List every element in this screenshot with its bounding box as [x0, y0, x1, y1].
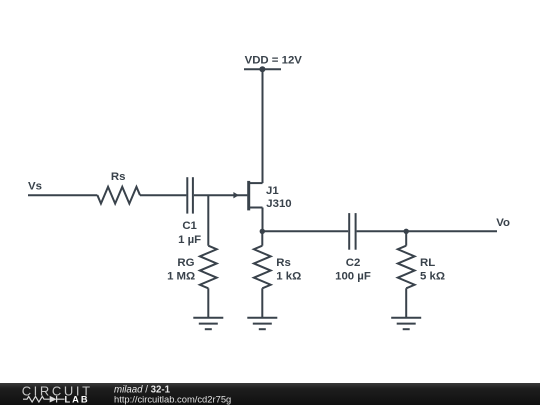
- logo diode triangle: [50, 396, 57, 403]
- junction dot VDD: [259, 66, 265, 72]
- svg-text:RG: RG: [177, 257, 194, 269]
- svg-text:J310: J310: [266, 198, 291, 210]
- ground for RG: [193, 318, 223, 330]
- svg-text:1 kΩ: 1 kΩ: [276, 270, 301, 282]
- wire input from Vs: [28, 194, 97, 196]
- svg-text:Vo: Vo: [496, 217, 510, 229]
- wire Rs 1k to ground: [261, 288, 263, 317]
- ground for Rs 1k: [247, 318, 277, 330]
- wire RG to ground: [207, 288, 209, 317]
- capacitor C1: [186, 177, 188, 213]
- wire RL to ground: [405, 288, 407, 317]
- wire VDD rail to drain: [262, 69, 264, 183]
- resistor RL: [398, 246, 415, 289]
- logo schematic squiggle: resistor: [23, 396, 65, 403]
- transistor J1 drain lead: [249, 182, 263, 184]
- resistor Rs (1 k): [254, 246, 271, 289]
- transistor J1 channel bar: [247, 181, 250, 211]
- wire C1 to gate: [194, 194, 248, 196]
- wire node down to Rs 1k: [261, 231, 263, 245]
- wire node down to RL: [405, 231, 407, 245]
- ground for RL: [391, 318, 421, 330]
- svg-text:RL: RL: [420, 257, 435, 269]
- transistor J1 source lead: [249, 207, 263, 209]
- svg-text:100 µF: 100 µF: [335, 270, 371, 282]
- svg-text:1 µF: 1 µF: [178, 234, 201, 246]
- resistor RG: [200, 246, 217, 289]
- svg-text:Rs: Rs: [111, 171, 126, 183]
- svg-text:C2: C2: [346, 257, 361, 269]
- wire resistor to C1: [140, 194, 186, 196]
- svg-text:LAB: LAB: [65, 394, 90, 404]
- wire source to node: [262, 208, 264, 232]
- svg-text:VDD = 12V: VDD = 12V: [245, 55, 303, 67]
- transistor J1 gate arrow: [233, 192, 239, 198]
- svg-text:Rs: Rs: [276, 257, 291, 269]
- svg-text:1 MΩ: 1 MΩ: [167, 270, 195, 282]
- capacitor C2: [348, 213, 350, 250]
- svg-text:5 kΩ: 5 kΩ: [420, 270, 445, 282]
- svg-text:Vs: Vs: [28, 181, 42, 193]
- junction dot source node: [260, 229, 265, 234]
- power VDD bar: [244, 68, 281, 70]
- svg-text:J1: J1: [266, 185, 279, 197]
- logo diode: [57, 396, 65, 403]
- wire RG branch: [207, 195, 209, 246]
- wire C2 to Vo: [357, 230, 497, 232]
- junction dot RL node: [404, 229, 409, 234]
- wire node to C2: [262, 230, 348, 232]
- resistor Rs (series): [97, 187, 140, 204]
- svg-text:http://circuitlab.com/cd2r75g: http://circuitlab.com/cd2r75g: [114, 393, 231, 404]
- svg-text:C1: C1: [182, 220, 197, 232]
